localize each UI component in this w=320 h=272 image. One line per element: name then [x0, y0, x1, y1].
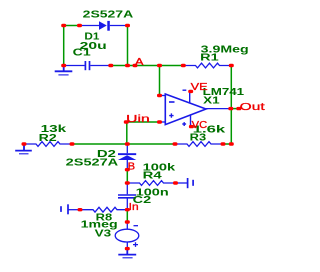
svg-text:R4: R4	[143, 171, 163, 182]
svg-text:In: In	[129, 202, 139, 213]
svg-text:VE: VE	[191, 82, 209, 93]
svg-text:R2: R2	[39, 133, 57, 144]
svg-text:2S527A: 2S527A	[66, 158, 119, 169]
svg-text:2S527A: 2S527A	[83, 10, 134, 21]
svg-text:A: A	[135, 57, 144, 68]
svg-text:B: B	[128, 161, 136, 172]
svg-text:R1: R1	[200, 52, 219, 63]
svg-text:Out: Out	[240, 101, 265, 113]
svg-text:V3: V3	[95, 229, 112, 240]
svg-text:C1: C1	[73, 48, 92, 59]
svg-text:R3: R3	[190, 133, 207, 144]
svg-text:VC: VC	[192, 120, 208, 131]
svg-text:X1: X1	[203, 96, 220, 107]
svg-text:Uin: Uin	[126, 114, 150, 125]
